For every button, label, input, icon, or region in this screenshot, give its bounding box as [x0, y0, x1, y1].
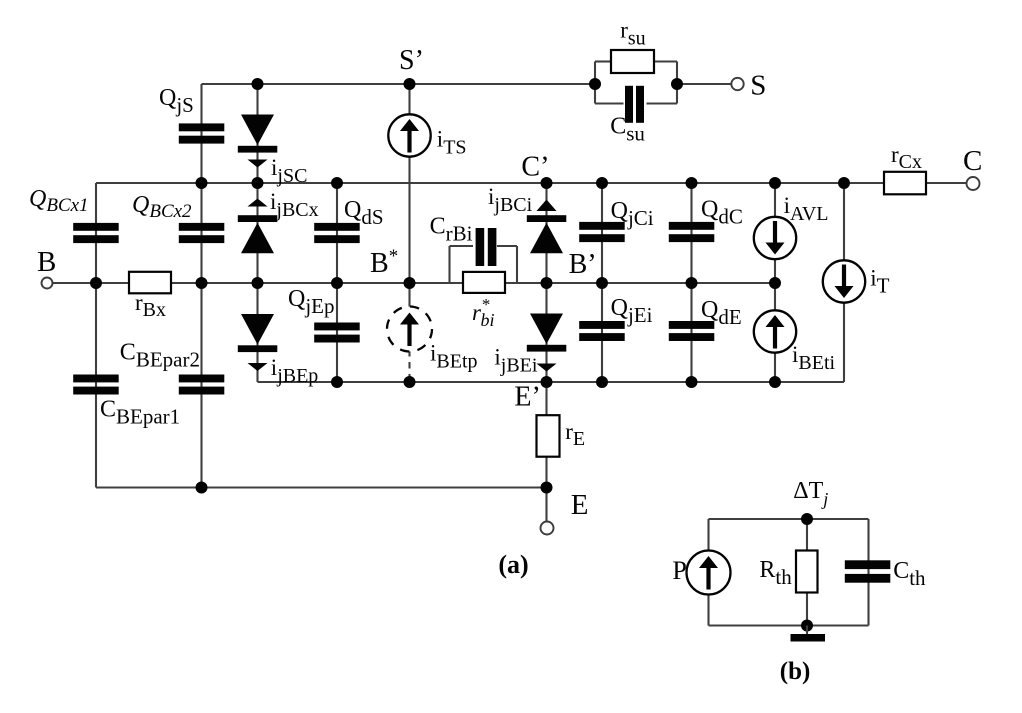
svg-text:iAVL: iAVL [784, 193, 829, 225]
svg-text:P: P [672, 556, 686, 585]
wire thermal Rth branch [806, 519, 808, 626]
svg-text:CBEpar1: CBEpar1 [100, 396, 180, 428]
diode ijBEp [238, 314, 277, 352]
wire ijBEp diode branch [256, 283, 258, 382]
diode ijBEi [527, 314, 567, 352]
wire B-row main horizontal [52, 282, 775, 284]
capacitor QdE [669, 321, 715, 341]
capacitor Csu [625, 86, 644, 123]
junction B*-row QjEp [331, 277, 343, 289]
wire rE branch E'-to-E [545, 382, 547, 522]
junction thermal bottom node [801, 620, 813, 632]
wire thermal P branch [707, 519, 709, 626]
wire CrBi loop left vertical [448, 246, 450, 283]
wire thermal Cth branch [867, 519, 869, 626]
capacitor CBEpar1 [73, 375, 119, 395]
svg-text:iBEtp: iBEtp [430, 341, 478, 373]
wire CrBi loop right vertical [516, 246, 518, 283]
svg-text:CrBi: CrBi [430, 214, 473, 246]
junction B-row ijBCx [252, 277, 264, 289]
current-direction arrow ijBEp [248, 363, 268, 371]
wire S'-row left segment [202, 83, 596, 85]
svg-text:B: B [37, 246, 56, 278]
junction S' node [404, 78, 416, 90]
junction C'-row QBCx2 [196, 177, 208, 189]
wire QdE branch [690, 283, 692, 382]
junction B-row QBCx2 [196, 277, 208, 289]
junction B-row B input [90, 277, 102, 289]
wire QdS branch [336, 183, 338, 283]
junction B' node [541, 277, 553, 289]
svg-text:iT: iT [870, 265, 889, 297]
capacitor QBCx2 [179, 223, 225, 243]
ground symbol [791, 626, 826, 642]
wire ijSC diode branch [256, 84, 258, 183]
svg-text:B’: B’ [569, 249, 597, 280]
terminal S [731, 78, 743, 90]
wire QdC branch [690, 183, 692, 283]
svg-text:QBCx1: QBCx1 [29, 186, 89, 216]
wire QjCi branch [601, 183, 603, 283]
capacitor QdC [669, 222, 715, 242]
junction dTj node [801, 513, 813, 525]
wire rsu-Csu loop right vertical [676, 62, 678, 104]
diode ijBCx [238, 215, 277, 253]
current source iBEti [754, 310, 796, 352]
wire iTS branch S'-to-B* [408, 84, 410, 283]
junction C'-row iAVL [769, 177, 781, 189]
resistor rBx [129, 272, 171, 294]
svg-text:rE: rE [565, 419, 585, 450]
terminal B [42, 278, 53, 289]
svg-text:iTS: iTS [437, 126, 467, 158]
svg-text:CBEpar2: CBEpar2 [120, 339, 200, 371]
junction B'-row QjEi [596, 277, 608, 289]
capacitor QjS [179, 123, 225, 143]
wire iBEti branch [774, 283, 776, 382]
junction E'-row QjEi [596, 376, 608, 388]
diode ijBCi [527, 215, 567, 253]
svg-text:ijBCi: ijBCi [488, 184, 533, 216]
capacitor QdS [314, 223, 360, 243]
wire iBEtp branch lower dashed stub [408, 350, 410, 382]
terminal C [967, 177, 980, 190]
svg-text:ijBCx: ijBCx [270, 189, 319, 221]
current source P [687, 551, 731, 595]
capacitor QBCx1 [73, 223, 119, 243]
svg-text:QjS: QjS [159, 85, 194, 117]
junction E'-row QjEp [331, 376, 343, 388]
capacitor QjCi [579, 222, 625, 242]
resistor rE [537, 415, 560, 457]
wire QjS branch [200, 84, 202, 183]
wire E'-row main horizontal [258, 381, 845, 383]
svg-text:ΔTj: ΔTj [793, 478, 828, 509]
svg-text:S: S [750, 69, 766, 101]
junction S' ijSC top [252, 78, 264, 90]
wire rsu-Csu loop left vertical [594, 62, 596, 104]
junction E'-row QdE [686, 376, 698, 388]
svg-text:C’: C’ [521, 151, 549, 182]
wire QjEp branch [336, 283, 338, 382]
wire iBEtp branch upper stub [408, 283, 410, 308]
current source iT [823, 260, 865, 302]
wire QBCx2 branch [200, 183, 202, 283]
svg-text:(a): (a) [498, 550, 528, 579]
junction C'-row iT [838, 177, 850, 189]
current source iBEtp [387, 307, 432, 352]
svg-text:E: E [571, 489, 589, 521]
svg-text:iBEti: iBEti [792, 342, 836, 374]
wire iAVL branch [774, 183, 776, 283]
svg-text:rBx: rBx [135, 290, 166, 321]
wire CBEpar1 branch [95, 283, 97, 488]
svg-text:QBCx2: QBCx2 [132, 192, 192, 222]
diode ijSC [238, 115, 277, 153]
svg-text:(b): (b) [780, 658, 811, 685]
wire C'-row rCx-to-C segment [926, 182, 967, 184]
wire iT branch [843, 183, 845, 382]
svg-text:QjEp: QjEp [288, 286, 335, 318]
svg-text:ijSC: ijSC [271, 155, 307, 187]
junction E'-row iBEti [769, 376, 781, 388]
capacitor QjEi [579, 321, 625, 341]
wire thermal bottom rail [709, 624, 869, 626]
wire C'-row main horizontal [96, 182, 884, 184]
wire CrBi loop top-right [497, 245, 517, 247]
current-direction arrow ijBCx [248, 199, 268, 207]
svg-text:ijBEp: ijBEp [271, 355, 319, 387]
junction C'-row QjCi [596, 177, 608, 189]
svg-text:S’: S’ [399, 45, 424, 76]
wire CrBi loop top-left [450, 245, 474, 247]
wire QjEi branch [601, 283, 603, 382]
junction E' node [541, 376, 553, 388]
capacitor CBEpar2 [179, 375, 225, 395]
wire S'-row right segment to S terminal [677, 83, 732, 85]
current-direction arrow ijBEi [537, 364, 557, 372]
current-direction arrow ijBCi [537, 200, 557, 212]
junction C'-row ijBCx [252, 177, 264, 189]
junction C'-row QdS [331, 177, 343, 189]
svg-text:Rth: Rth [759, 557, 792, 589]
wire Csu bottom branch right [647, 102, 678, 104]
capacitor Cth [845, 560, 891, 582]
current-direction arrow ijSC [248, 160, 268, 168]
junction B* node [404, 277, 416, 289]
resistor rCx [884, 172, 926, 195]
resistor Rth [796, 551, 818, 593]
wire ijBCx diode branch [256, 183, 258, 283]
wire rsu top branch right [654, 60, 677, 62]
capacitor CrBi [476, 228, 497, 266]
wire ijBEi diode branch [545, 283, 547, 382]
terminal E [541, 522, 554, 535]
wire rsu top branch left [595, 60, 611, 62]
junction S'-row/rsu left node [589, 78, 601, 90]
wire thermal top rail [709, 518, 869, 520]
junction B'-row QdE [686, 277, 698, 289]
wire ijBCi diode branch [545, 183, 547, 283]
resistor rsu [611, 50, 654, 73]
junction E'-row iBEtp [404, 376, 416, 388]
junction B'-row iBEti [769, 277, 781, 289]
svg-text:rCx: rCx [891, 142, 922, 173]
svg-text:Cth: Cth [893, 558, 926, 590]
svg-text:C: C [963, 145, 982, 177]
junction C' node [541, 177, 553, 189]
current source iTS [388, 114, 430, 156]
wire CBEpar2 branch [200, 283, 202, 488]
svg-text:B*: B* [370, 246, 398, 279]
wire Csu bottom branch left [595, 102, 624, 104]
current source iAVL [754, 217, 796, 259]
svg-text:r*bi: r*bi [472, 295, 494, 330]
wire bottom emitter-return horizontal [96, 486, 547, 488]
junction bottom-row rE/E node [541, 482, 553, 494]
junction C'-row QdC [686, 177, 698, 189]
junction S'-row/rsu right node [671, 78, 683, 90]
capacitor QjEp [314, 323, 360, 343]
svg-text:E’: E’ [514, 382, 540, 413]
junction bottom-row CBEpar2 [196, 482, 208, 494]
wire QBCx1 branch [95, 183, 97, 283]
svg-text:rsu: rsu [620, 18, 645, 50]
resistor r*bi [463, 272, 505, 293]
